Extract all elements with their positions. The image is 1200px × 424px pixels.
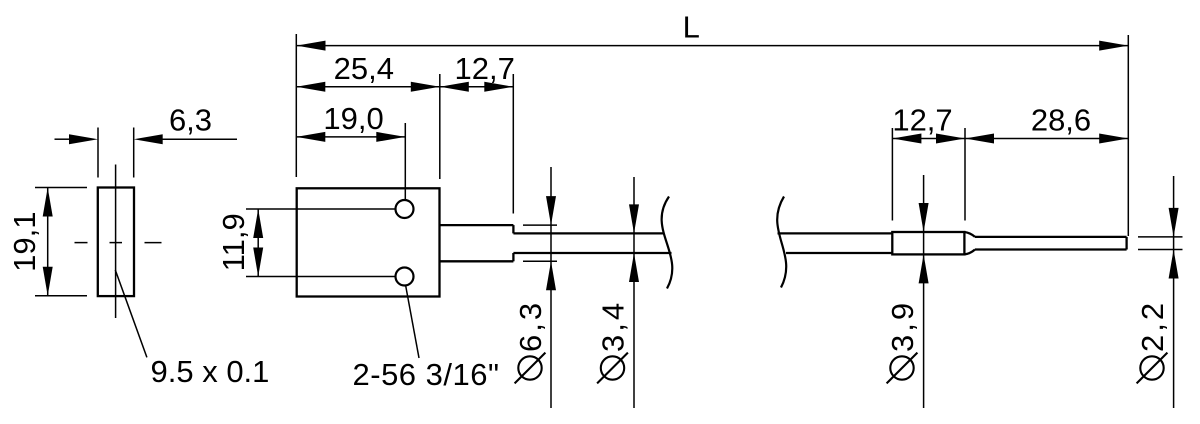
dimension 6,3 dimension line with outside arrows	[55, 138, 71, 140]
dimension 11,9 arrow line	[257, 209, 259, 277]
upper arrow line	[923, 175, 925, 408]
svg-text:12,7: 12,7	[892, 103, 952, 138]
dimension 6,3 extension lines	[97, 128, 99, 178]
leader line to plate thickness label	[115, 270, 147, 357]
lower arrowhead	[629, 253, 639, 282]
hex stub top edge	[440, 224, 514, 226]
horizontal centerline of plate (dashed segments)	[75, 242, 88, 244]
svg-text:25,4: 25,4	[334, 51, 394, 86]
lower hole centerline	[246, 276, 396, 278]
hex stub bottom edge	[440, 260, 514, 262]
dimension 19,1 arrow line	[47, 188, 49, 296]
diameter symbol for 3,9	[890, 356, 913, 379]
svg-text:L: L	[683, 10, 700, 45]
upper hole centerline	[246, 208, 396, 210]
sheath tube left section top	[513, 232, 664, 234]
svg-text:19,0: 19,0	[323, 101, 383, 136]
lower arrowhead	[919, 254, 929, 283]
vertical centerline of plate	[115, 165, 117, 319]
diameter symbol for 6,3	[518, 356, 541, 379]
sheath tube right section top	[778, 232, 893, 234]
svg-text:3,4: 3,4	[596, 300, 631, 352]
diameter symbol for 2,2	[1140, 356, 1163, 379]
svg-text:6,3: 6,3	[513, 300, 548, 352]
svg-text:19,1: 19,1	[7, 212, 42, 272]
plate body (side view rectangle)	[98, 188, 134, 297]
block body	[297, 188, 440, 296]
probe tip end edge	[1125, 237, 1127, 250]
ext line sleeve right	[964, 128, 966, 221]
svg-text:9.5 x 0.1: 9.5 x 0.1	[151, 354, 270, 389]
probe tip top edge	[975, 236, 1127, 238]
sheath tube left section bottom	[513, 252, 671, 254]
dimension L line	[297, 45, 1129, 47]
dimension 12,7 (left) dimension line	[440, 86, 514, 88]
ext line sleeve left	[891, 128, 893, 221]
upper hole vertical extension line	[404, 123, 406, 200]
ext lines probe tip	[1138, 236, 1183, 238]
svg-text:12,7: 12,7	[455, 51, 515, 86]
svg-text:2,2: 2,2	[1135, 300, 1170, 352]
upper mounting hole	[396, 200, 414, 218]
lower arrowhead	[1169, 250, 1179, 279]
lower arrowhead	[546, 261, 556, 290]
taper bottom	[964, 250, 975, 255]
stub right shoulder	[512, 225, 514, 233]
svg-text:28,6: 28,6	[1031, 103, 1091, 138]
break line right	[777, 197, 786, 288]
upper arrow line	[550, 167, 552, 408]
diameter symbol for 3,4	[601, 356, 624, 379]
svg-text:11,9: 11,9	[216, 213, 251, 271]
leader line from lower hole	[406, 285, 420, 358]
ext lines stub	[523, 224, 557, 226]
probe tip bottom edge	[975, 248, 1127, 250]
upper arrow line	[1173, 176, 1175, 408]
dimension 19,1 extension lines	[35, 187, 87, 189]
sheath tube right section bottom	[786, 252, 892, 254]
dimension 19,0 dimension line	[296, 136, 405, 138]
dimension 12,7 line	[892, 138, 965, 140]
break line left	[662, 197, 673, 289]
svg-text:3,9: 3,9	[885, 300, 920, 352]
extension line block left	[295, 34, 297, 177]
svg-text:6,3: 6,3	[169, 103, 212, 138]
svg-text:2-56 3/16": 2-56 3/16"	[353, 357, 500, 392]
upper arrow line	[633, 177, 635, 408]
extension line block right	[439, 74, 441, 179]
extension line stub end	[512, 74, 514, 214]
dimension 28,6 line	[965, 138, 1128, 140]
dimension 25,4 dimension line	[296, 86, 440, 88]
sleeve body	[892, 232, 964, 254]
taper top	[964, 232, 975, 237]
lower mounting hole	[396, 268, 414, 286]
extension line right end	[1127, 35, 1129, 236]
